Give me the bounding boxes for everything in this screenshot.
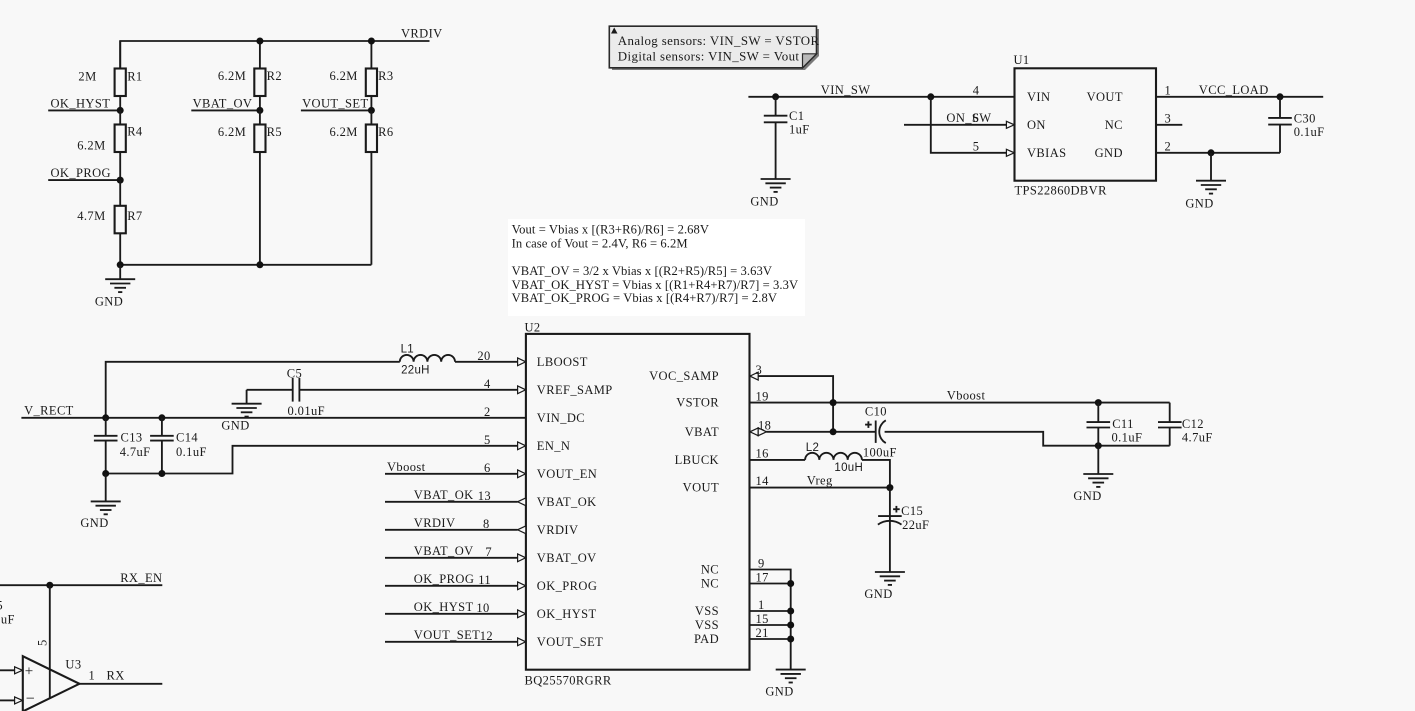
svg-text:5: 5: [484, 433, 491, 447]
wire VRDIV stub pin 8: [385, 529, 518, 531]
wire VOC_SAMP pin 3 to VSTOR/VBAT: [758, 376, 833, 432]
svg-text:VBAT_OK: VBAT_OK: [537, 495, 597, 509]
svg-text:Analog sensors: VIN_SW = VSTOR: Analog sensors: VIN_SW = VSTOR: [618, 34, 820, 48]
wire LBUCK pin 16: [750, 459, 806, 461]
wire NC pin 17: [750, 583, 791, 585]
ground GND: [95, 265, 135, 309]
svg-text:C10: C10: [865, 405, 887, 419]
pin arrow OK_HYST in: [518, 610, 526, 618]
svg-text:L1: L1: [401, 343, 414, 355]
svg-text:VRDIV: VRDIV: [401, 27, 443, 41]
svg-text:VIN_DC: VIN_DC: [537, 411, 585, 425]
pin arrow VRDIV out: [518, 526, 526, 534]
svg-text:0.1uF: 0.1uF: [1294, 125, 1325, 139]
svg-text:VOUT: VOUT: [1087, 90, 1123, 104]
svg-text:+: +: [25, 663, 34, 679]
svg-text:9: 9: [758, 557, 765, 571]
pin arrow VOUT_SET in: [518, 638, 526, 646]
svg-text:R7: R7: [127, 209, 142, 223]
svg-text:5: 5: [36, 639, 50, 646]
resistor R3: [370, 41, 372, 69]
svg-text:LBUCK: LBUCK: [675, 453, 719, 467]
svg-text:21: 21: [756, 626, 769, 640]
svg-text:VIN_SW: VIN_SW: [821, 83, 871, 97]
wire OK_HYST stub pin 10: [385, 613, 518, 615]
svg-text:EN_N: EN_N: [537, 439, 571, 453]
capacitor C15 polarized: [889, 488, 891, 516]
pin arrow + input: [15, 667, 23, 674]
ground under C11: [1073, 446, 1113, 504]
svg-text:8: 8: [483, 517, 490, 531]
svg-text:NC: NC: [701, 577, 719, 591]
wire VSTOR pin 19 Vboost rail: [750, 402, 1170, 404]
wire VSS pin 15: [750, 624, 791, 626]
resistor R5: [259, 110, 261, 124]
svg-text:VBAT_OK_HYST = Vbias x [(R1+R4: VBAT_OK_HYST = Vbias x [(R1+R4+R7)/R7] =…: [512, 278, 799, 292]
svg-text:VBAT_OV: VBAT_OV: [414, 544, 474, 558]
svg-text:OK_HYST: OK_HYST: [537, 607, 597, 621]
svg-text:3: 3: [1165, 111, 1172, 125]
wire / node OK_HYST: [48, 109, 120, 111]
svg-text:2: 2: [1165, 139, 1172, 153]
wire L2 down to VOUT: [862, 460, 890, 488]
capacitor C12: [1169, 403, 1171, 423]
svg-text:VBAT_OV: VBAT_OV: [193, 96, 253, 110]
svg-text:VBIAS: VBIAS: [1027, 146, 1067, 160]
resistor R6: [370, 110, 372, 124]
svg-text:Digital sensors: VIN_SW = Vout: Digital sensors: VIN_SW = Vout: [618, 49, 800, 63]
svg-text:GND: GND: [80, 516, 108, 530]
wire PAD pin 21: [750, 638, 791, 640]
svg-text:GND: GND: [1095, 146, 1123, 160]
svg-text:C14: C14: [176, 431, 198, 445]
svg-text:RX_EN: RX_EN: [120, 571, 162, 585]
svg-text:NC: NC: [701, 563, 719, 577]
ground under U1 pin2: [1185, 153, 1226, 211]
wire to VBIAS: [931, 97, 1007, 153]
svg-text:GND: GND: [765, 685, 793, 699]
pin arrow VOC_SAMP out (right): [750, 372, 758, 380]
svg-text:GND: GND: [95, 294, 123, 308]
svg-text:0.1uF: 0.1uF: [176, 445, 207, 459]
wire NC stub pin 3: [1156, 124, 1182, 126]
inductor L2: [805, 453, 862, 460]
wire top rail VRDIV: [120, 41, 429, 69]
svg-text:VCC_LOAD: VCC_LOAD: [1199, 83, 1269, 97]
wire V_RECT: [21, 417, 526, 419]
svg-text:R6: R6: [378, 125, 393, 139]
svg-text:C35: C35: [0, 599, 3, 613]
svg-text:Vboost: Vboost: [947, 389, 986, 403]
svg-text:10: 10: [476, 601, 489, 615]
svg-text:100uF: 100uF: [863, 446, 897, 460]
pin arrow VBAT bidir (right): [750, 428, 758, 436]
wire LBOOST from V_RECT riser: [106, 362, 400, 418]
wire C13/C14 bottoms to EN_N: [106, 446, 518, 474]
svg-text:RX: RX: [107, 669, 125, 683]
svg-text:GND: GND: [221, 419, 249, 433]
svg-text:6: 6: [484, 461, 491, 475]
svg-text:VRDIV: VRDIV: [537, 523, 579, 537]
wire RX_EN: [0, 584, 162, 586]
svg-text:VSTOR: VSTOR: [676, 396, 719, 410]
capacitor C30: [1279, 97, 1281, 118]
svg-text:20: 20: [477, 349, 490, 363]
svg-text:5: 5: [973, 139, 980, 153]
svg-text:C30: C30: [1294, 111, 1316, 125]
svg-text:1: 1: [1165, 83, 1172, 97]
svg-text:C5: C5: [287, 367, 302, 381]
capacitor C10 polarized: [875, 421, 877, 443]
capacitor C5: [292, 378, 294, 402]
svg-text:VOUT_EN: VOUT_EN: [537, 467, 597, 481]
input wire -: [0, 699, 15, 701]
pin arrow VBAT_OV in: [518, 554, 526, 562]
resistor R1: [119, 41, 121, 69]
svg-text:C13: C13: [121, 431, 143, 445]
IC U2 box: [526, 334, 750, 670]
svg-text:GND: GND: [864, 587, 892, 601]
svg-text:VIN: VIN: [1027, 90, 1050, 104]
svg-text:In case of Vout = 2.4V, R6 = 6: In case of Vout = 2.4V, R6 = 6.2M: [512, 236, 688, 250]
svg-text:VBAT_OK: VBAT_OK: [414, 488, 474, 502]
svg-text:U1: U1: [1014, 53, 1030, 67]
op-amp U3: [23, 656, 80, 711]
svg-text:TPS22860DBVR: TPS22860DBVR: [1015, 183, 1108, 197]
wire / node VOUT_SET: [301, 109, 372, 111]
svg-text:VOUT_SET: VOUT_SET: [537, 635, 603, 649]
svg-text:BQ25570RGRR: BQ25570RGRR: [525, 674, 612, 688]
svg-text:VREF_SAMP: VREF_SAMP: [537, 383, 613, 397]
svg-text:GND: GND: [1073, 489, 1101, 503]
wire RX output: [79, 683, 162, 685]
svg-text:Vboost: Vboost: [387, 460, 426, 474]
svg-text:C11: C11: [1112, 417, 1134, 431]
svg-text:12: 12: [480, 629, 493, 643]
svg-text:16: 16: [756, 446, 769, 460]
pin arrow VOUT_EN in: [518, 470, 526, 478]
svg-text:6.2M: 6.2M: [218, 125, 246, 139]
svg-text:R3: R3: [378, 69, 393, 83]
wire Vboost stub pin 6: [385, 473, 518, 475]
svg-text:VBAT_OK_PROG = Vbias x [(R4+R7: VBAT_OK_PROG = Vbias x [(R4+R7)/R7] = 2.…: [512, 291, 777, 305]
wire pin 5 enable: [49, 585, 51, 698]
svg-text:VBAT_OV = 3/2 x Vbias x [(R2+R: VBAT_OV = 3/2 x Vbias x [(R2+R5)/R5] = 3…: [512, 264, 772, 278]
wire VOUT pin 14 Vreg: [750, 487, 890, 489]
wire ON_SW: [904, 124, 1007, 126]
resistor R4: [119, 110, 121, 124]
svg-text:VOUT: VOUT: [683, 481, 719, 495]
svg-text:4.7uF: 4.7uF: [120, 445, 151, 459]
pin arrow EN_N in: [518, 442, 526, 450]
svg-text:7: 7: [485, 545, 492, 559]
pin arrow ON: [1006, 121, 1014, 128]
wire L1 to pin 20: [455, 361, 518, 363]
svg-text:11: 11: [478, 573, 491, 587]
svg-text:VBAT_OV: VBAT_OV: [537, 551, 597, 565]
svg-text:OK_PROG: OK_PROG: [51, 166, 111, 180]
wire VBAT_OV stub pin 7: [385, 557, 518, 559]
svg-text:6: 6: [973, 111, 980, 125]
svg-text:18: 18: [758, 418, 771, 432]
svg-text:R1: R1: [127, 69, 142, 83]
svg-text:ON_SW: ON_SW: [946, 111, 991, 125]
pin arrow - input: [15, 697, 23, 704]
wire C10 to C11/C12 bottom rail: [885, 432, 1170, 446]
svg-text:22uH: 22uH: [401, 365, 430, 377]
svg-text:1: 1: [758, 598, 765, 612]
svg-text:OK_PROG: OK_PROG: [537, 579, 597, 593]
svg-text:VBAT: VBAT: [685, 425, 719, 439]
wire NC pin 9: [750, 570, 791, 670]
ground under VSS bus: [765, 670, 805, 699]
inductor L1: [400, 355, 455, 362]
svg-text:V_RECT: V_RECT: [24, 404, 74, 418]
svg-text:R4: R4: [127, 125, 143, 139]
wire VBAT_OK stub pin 13: [385, 501, 518, 503]
pin arrow LBOOST in: [518, 358, 526, 366]
svg-text:OK_HYST: OK_HYST: [51, 96, 111, 110]
svg-text:6.2M: 6.2M: [329, 69, 357, 83]
svg-text:6.2M: 6.2M: [77, 139, 105, 153]
pin arrow VBIAS: [1006, 149, 1014, 156]
svg-text:17: 17: [756, 571, 769, 585]
svg-text:NC: NC: [1105, 118, 1123, 132]
svg-text:C12: C12: [1182, 417, 1204, 431]
svg-text:−: −: [26, 691, 35, 708]
capacitor C13: [105, 418, 107, 436]
svg-text:3: 3: [756, 363, 763, 377]
ground under C13: [80, 474, 120, 531]
svg-text:4.7M: 4.7M: [77, 209, 105, 223]
svg-text:U3: U3: [65, 658, 81, 672]
wire / node OK_PROG: [48, 179, 120, 181]
svg-text:1: 1: [89, 669, 96, 683]
capacitor C1: [775, 97, 777, 116]
svg-text:OK_PROG: OK_PROG: [414, 572, 474, 586]
svg-text:U2: U2: [525, 321, 541, 335]
svg-text:0.1uF: 0.1uF: [1112, 431, 1143, 445]
svg-text:R2: R2: [267, 69, 282, 83]
capacitor C14: [161, 418, 163, 436]
svg-text:22uF: 22uF: [902, 518, 929, 532]
svg-text:LBOOST: LBOOST: [537, 355, 588, 369]
resistor R7: [119, 180, 121, 206]
wire VSS pin 1: [750, 610, 791, 612]
svg-text:C1: C1: [789, 109, 804, 123]
svg-text:4: 4: [973, 83, 980, 97]
wire / node VBAT_OV: [191, 109, 260, 111]
svg-text:2M: 2M: [78, 69, 96, 83]
capacitor C11: [1097, 403, 1099, 423]
svg-text:C15: C15: [901, 504, 923, 518]
svg-text:2: 2: [484, 405, 491, 419]
resistor R2: [259, 41, 261, 69]
svg-text:10uH: 10uH: [834, 462, 863, 474]
svg-text:VSS: VSS: [695, 604, 719, 618]
svg-text:PAD: PAD: [694, 632, 719, 646]
pin arrow OK_PROG in: [518, 582, 526, 590]
pin arrow VBAT_OK out: [518, 498, 526, 506]
wire OK_PROG stub pin 11: [385, 585, 518, 587]
svg-text:0.1uF: 0.1uF: [0, 613, 15, 627]
svg-text:R5: R5: [267, 125, 282, 139]
svg-text:0.01uF: 0.01uF: [288, 404, 325, 418]
input wire +: [0, 669, 15, 671]
svg-text:4: 4: [484, 377, 491, 391]
svg-text:L2: L2: [806, 442, 819, 454]
wire GND pin 2: [1156, 152, 1280, 154]
ground under C1: [750, 179, 790, 209]
svg-text:Vreg: Vreg: [807, 473, 833, 487]
svg-text:14: 14: [756, 474, 770, 488]
svg-text:GND: GND: [750, 195, 778, 209]
svg-text:1uF: 1uF: [789, 123, 810, 137]
wire VCC_LOAD: [1156, 96, 1323, 98]
svg-text:VRDIV: VRDIV: [414, 516, 456, 530]
svg-text:15: 15: [756, 612, 769, 626]
IC U1 box: [1015, 68, 1157, 180]
svg-text:4.7uF: 4.7uF: [1182, 431, 1213, 445]
svg-text:OK_HYST: OK_HYST: [414, 600, 474, 614]
svg-text:VOUT_SET: VOUT_SET: [414, 628, 480, 642]
svg-text:GND: GND: [1185, 196, 1213, 210]
equations white panel: [508, 219, 805, 316]
svg-text:13: 13: [478, 489, 491, 503]
ground under C15: [864, 572, 905, 601]
svg-text:VSS: VSS: [695, 618, 719, 632]
svg-text:19: 19: [756, 390, 769, 404]
pin arrow VREF_SAMP in: [518, 386, 526, 394]
wire VOUT_SET stub pin 12: [385, 641, 518, 643]
svg-text:VOUT_SET: VOUT_SET: [302, 96, 368, 110]
svg-text:VOC_SAMP: VOC_SAMP: [649, 369, 719, 383]
svg-text:6.2M: 6.2M: [329, 125, 357, 139]
ground left of C5: [221, 390, 261, 433]
wire VBAT pin 18: [766, 431, 875, 433]
svg-text:6.2M: 6.2M: [218, 69, 246, 83]
svg-text:ON: ON: [1027, 118, 1046, 132]
wire VIN_SW: [748, 96, 1014, 98]
wire bottom rail: [120, 264, 371, 266]
svg-text:Vout = Vbias x [(R3+R6)/R6] =: Vout = Vbias x [(R3+R6)/R6] = 2.68V: [512, 223, 710, 237]
